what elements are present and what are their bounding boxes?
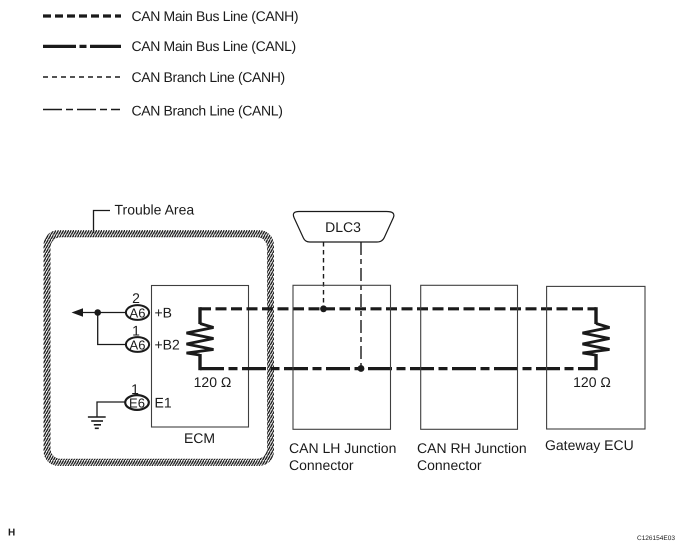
- svg-text:E1: E1: [155, 395, 172, 411]
- CAN branch line CANH from DLC3: [323, 242, 325, 309]
- CAN branch line CANL from DLC3: [360, 242, 362, 369]
- svg-text:CAN Main Bus Line (CANH): CAN Main Bus Line (CANH): [132, 8, 299, 24]
- svg-text:CAN Main Bus Line (CANL): CAN Main Bus Line (CANL): [132, 38, 296, 54]
- svg-text:+B2: +B2: [155, 337, 181, 353]
- trouble area hatched border: [44, 230, 275, 466]
- svg-text:CAN RH Junction: CAN RH Junction: [417, 440, 527, 456]
- CAN main bus line CANL (thick dash pattern): [200, 367, 596, 370]
- trouble area leader line: [94, 211, 111, 234]
- connector A6 (+B): [126, 305, 149, 320]
- svg-text:120 Ω: 120 Ω: [573, 374, 611, 390]
- node: CANL branch junction dot: [358, 365, 365, 372]
- svg-text:H: H: [8, 528, 15, 539]
- resistor 120 ohm (ECM terminating): [187, 324, 214, 356]
- CAN LH junction connector box: [293, 285, 391, 429]
- svg-text:A6: A6: [130, 306, 146, 321]
- legend sample line: CAN Main Bus Line (CANH): [43, 14, 121, 17]
- svg-text:2: 2: [132, 290, 140, 306]
- svg-text:Connector: Connector: [417, 457, 482, 473]
- CAN RH junction connector box: [421, 285, 518, 429]
- svg-text:120 Ω: 120 Ω: [194, 374, 232, 390]
- wire node down to +B2: [98, 313, 126, 345]
- legend sample line: CAN Main Bus Line (CANL): [43, 45, 121, 48]
- svg-text:C126154E03: C126154E03: [637, 535, 675, 542]
- svg-text:Gateway ECU: Gateway ECU: [545, 437, 634, 453]
- CAN main bus line CANH (thick dashed): [200, 307, 596, 310]
- svg-text:DLC3: DLC3: [325, 219, 361, 235]
- legend sample line: CAN Branch Line (CANH): [43, 76, 120, 78]
- wire E6 to ground: [97, 402, 125, 417]
- ECM box: [152, 286, 249, 428]
- svg-text:CAN LH Junction: CAN LH Junction: [289, 440, 396, 456]
- svg-text:ECM: ECM: [184, 430, 215, 446]
- Gateway ECU box: [547, 286, 645, 429]
- wire arrow to node: [81, 312, 126, 314]
- connector E6 (E1): [125, 395, 149, 410]
- legend sample line: CAN Branch Line (CANL): [43, 109, 120, 111]
- svg-text:Connector: Connector: [289, 457, 354, 473]
- junction node dot: [94, 309, 101, 316]
- resistor 120 ohm (gateway terminating): [583, 324, 610, 356]
- node: CANH branch junction dot: [320, 305, 327, 312]
- svg-text:E6: E6: [129, 396, 145, 411]
- svg-text:CAN Branch Line (CANH): CAN Branch Line (CANH): [132, 69, 285, 85]
- svg-text:+B: +B: [155, 305, 173, 321]
- connector A6 (+B2): [126, 337, 149, 352]
- wire CANH to ECM resistor (corner drop): [198, 307, 201, 324]
- svg-text:CAN Branch Line (CANL): CAN Branch Line (CANL): [132, 102, 283, 118]
- DLC3 connector body: [293, 212, 394, 243]
- wire ECM resistor to CANL (corner rise): [198, 354, 201, 370]
- svg-text:Trouble Area: Trouble Area: [115, 202, 195, 218]
- svg-text:A6: A6: [130, 338, 146, 353]
- wire gateway resistor to CANL (corner rise): [594, 354, 597, 370]
- ground symbol: [88, 417, 106, 428]
- arrow to power source: [72, 308, 84, 317]
- wire CANH to gateway resistor (corner drop): [594, 307, 597, 324]
- svg-text:1: 1: [132, 323, 140, 339]
